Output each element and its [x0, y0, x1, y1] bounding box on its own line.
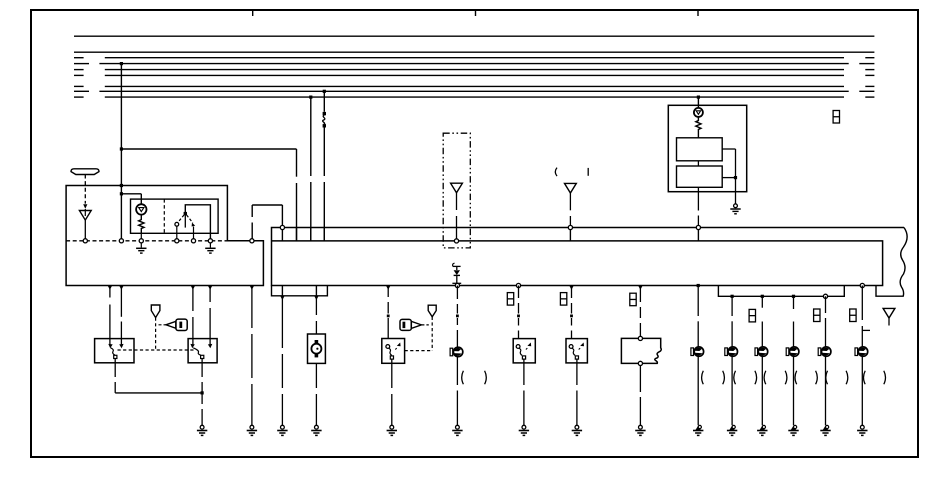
node exit E8 — [697, 284, 700, 287]
pin wire P1 — [280, 225, 284, 241]
pin terminal A1 — [454, 239, 458, 243]
ground G3 — [277, 425, 287, 435]
ground G8 — [572, 425, 582, 435]
connector CB5 — [814, 309, 820, 322]
inner box lamp+switch — [131, 199, 219, 233]
connector CT — [833, 111, 839, 124]
motor M1 — [311, 340, 321, 357]
lamp B6 — [855, 347, 868, 356]
wire B3 — [761, 296, 763, 347]
wire bus line 2 — [74, 51, 874, 53]
switch contact a — [175, 222, 179, 238]
terminal T6 — [208, 239, 212, 243]
wire B4 — [793, 296, 795, 347]
SE squiggle — [572, 348, 575, 355]
wire bus line 5 — [74, 69, 874, 71]
ground G-b4 — [788, 425, 798, 435]
SD squiggle — [519, 348, 522, 355]
wire W7 — [251, 286, 253, 426]
wire bus line 3 — [74, 57, 874, 59]
wire indicator feed — [697, 97, 699, 108]
node exit E6 — [569, 286, 574, 290]
node junction J3 — [120, 184, 123, 187]
wire DL1 — [109, 286, 111, 345]
node exit E1 — [280, 296, 285, 300]
node exit E15 — [119, 286, 124, 290]
wire K1-K2 — [697, 161, 699, 166]
connector CE — [560, 293, 566, 306]
wire H2 — [252, 204, 282, 206]
pin wire P4 — [323, 228, 325, 241]
antenna A2 brackets — [555, 168, 588, 177]
lamp B3 — [755, 347, 768, 356]
node junction J9 — [201, 391, 204, 394]
node junction J4 — [120, 192, 123, 195]
left unit box — [66, 186, 263, 286]
switch box SB — [188, 339, 217, 363]
node exit E3 — [386, 286, 391, 290]
lamp B4 — [786, 347, 799, 356]
node exit E5 — [516, 283, 520, 287]
SB contact arrows — [190, 344, 212, 348]
wire bus line 4 — [74, 63, 874, 65]
key cylinder pentagon KP1 — [151, 305, 160, 318]
frame tick 1 — [252, 11, 254, 16]
connector CD — [507, 293, 513, 306]
indicator lamp L2 — [694, 108, 703, 117]
terminal T7 — [250, 239, 254, 243]
bracket pair BR2 — [734, 371, 757, 385]
lamp B1 — [691, 347, 704, 356]
siren SIR — [450, 347, 463, 356]
mech link dashed 2 — [405, 350, 433, 352]
bracket pair BR5 — [826, 371, 848, 385]
wire SE out — [576, 359, 578, 425]
terminal row dashed — [66, 240, 227, 242]
tick B6 — [862, 329, 870, 331]
key symbol K2 — [400, 319, 421, 330]
ECU band outline — [272, 228, 905, 286]
wire bus line 6 — [74, 74, 874, 76]
connector CB3 — [749, 309, 755, 322]
wire indicator out — [697, 187, 699, 225]
wire W12 — [517, 286, 520, 339]
key switch U-box — [185, 205, 210, 239]
terminal T5 — [191, 239, 195, 243]
node exit E13 — [860, 283, 864, 287]
pin protrusion box — [718, 286, 844, 297]
node exit E2 — [314, 296, 319, 300]
node exit E4 — [455, 283, 459, 287]
motor box — [308, 334, 326, 363]
SE arrow — [579, 343, 584, 350]
lamp B2 — [725, 347, 738, 356]
wire K1 right branch — [722, 149, 735, 204]
wire DL2 — [120, 286, 122, 345]
wire siren out — [456, 357, 458, 426]
torn box terminals — [638, 336, 642, 365]
wire bus line 8 — [74, 90, 874, 92]
node junction J2 — [120, 147, 123, 150]
antenna A3 — [883, 308, 895, 325]
key symbol K1 — [166, 319, 187, 330]
wire W3 vertical — [310, 97, 312, 241]
indicator lamp L1 — [136, 204, 146, 214]
ground G-b2 — [727, 425, 737, 435]
SB squiggle — [193, 348, 201, 355]
wire W13 — [570, 286, 573, 339]
relay block K1 — [677, 138, 723, 161]
wire W9 — [315, 296, 317, 334]
switch box SA — [95, 339, 134, 363]
wire W10 — [387, 286, 390, 339]
ground G2 — [247, 425, 257, 435]
ground G9 — [635, 425, 645, 435]
switch box SC — [382, 339, 405, 364]
SC squiggle — [389, 348, 392, 355]
frame tick 2 — [475, 11, 477, 16]
pin bracket boxes — [272, 286, 328, 296]
key link dash K2a — [421, 324, 428, 326]
SD arrow — [526, 343, 531, 350]
wire motor out — [315, 363, 317, 425]
wire W4 upper — [323, 91, 325, 112]
resistor R1 — [139, 215, 144, 239]
pin wire P3 — [310, 228, 312, 241]
wire W5 — [251, 205, 253, 239]
switch throw dashes — [178, 215, 193, 223]
ECU torn edge — [876, 228, 907, 297]
wire W8 — [281, 296, 283, 426]
wire bus line 1 — [74, 35, 874, 37]
pin terminal ind — [696, 225, 700, 241]
terminal T1 — [83, 239, 87, 243]
wire branch to lamp — [121, 194, 141, 204]
frame tick 3 — [697, 11, 699, 16]
inner dashed divider — [163, 199, 165, 233]
node exit E17 — [208, 286, 213, 290]
SB moving contact — [201, 355, 204, 358]
wire bus line 7 — [74, 85, 874, 87]
SC contact — [386, 345, 390, 349]
bracket pair BR4 — [795, 371, 817, 385]
wire DL3 — [192, 286, 194, 345]
SA moving contact — [114, 355, 117, 358]
node exit E18 — [250, 286, 255, 290]
wire lamp B4 out — [793, 357, 795, 426]
key link dash K1a — [159, 324, 166, 326]
ground G-switch — [205, 243, 215, 253]
SD moving contact — [522, 356, 525, 359]
ground G-indicator — [730, 204, 740, 214]
ground G4 — [311, 425, 321, 435]
bracket pair BR1 — [702, 371, 725, 385]
bracket pair BR0 — [462, 371, 487, 385]
shield arrow — [83, 204, 87, 209]
switch box SE — [566, 339, 587, 363]
ground G-lamp — [136, 243, 146, 253]
wire bus line 9 — [74, 96, 874, 98]
connector CB6 — [850, 309, 856, 322]
wire lamp B6 out — [861, 357, 863, 426]
SC arrow — [395, 343, 400, 350]
key link dashed KV1 — [155, 318, 157, 350]
node bus junction J1 — [120, 62, 123, 65]
node exit E12 — [823, 294, 827, 298]
terminal T3 — [139, 239, 143, 243]
wire feed W1 vertical — [120, 64, 122, 239]
wire B5 — [825, 296, 827, 347]
wire dashed from horn — [84, 175, 86, 204]
node exit E11 — [792, 295, 795, 298]
wire W11 — [456, 286, 459, 347]
wire lamp B1 out — [697, 357, 699, 426]
wire lamp B3 out — [761, 357, 763, 426]
wire lamp B5 out — [825, 357, 827, 426]
node exit E14 — [108, 286, 113, 290]
wire H3 — [115, 392, 202, 394]
antenna A1 — [451, 183, 463, 239]
wire DL4 — [209, 286, 211, 345]
switch pivot — [184, 212, 187, 228]
wire W2 vertical — [296, 149, 298, 241]
wire W4 lower — [323, 127, 325, 241]
wire SC out — [391, 359, 393, 425]
fusible link FL — [323, 112, 326, 128]
wire SB out — [201, 359, 203, 393]
torn box — [621, 338, 661, 363]
node exit E9 — [731, 295, 734, 298]
wire W14 — [639, 286, 641, 337]
antenna A2 — [565, 183, 577, 225]
wire K2 right branch — [722, 177, 735, 179]
SA contact arrows — [108, 344, 123, 348]
node exit E16 — [191, 286, 196, 290]
wire lamp B2 out — [731, 357, 733, 426]
ground G7 — [519, 425, 529, 435]
wire B6 — [861, 286, 863, 348]
diode D1 — [452, 263, 461, 283]
key link dashed KV2 — [431, 317, 433, 351]
switch box SD — [513, 339, 535, 363]
ground G5 — [387, 425, 397, 435]
resistor R2 — [696, 117, 701, 138]
wire branch H1 — [121, 148, 296, 150]
wire to terminal — [84, 220, 86, 239]
ground G-b1 — [693, 425, 703, 435]
ground G6 — [452, 425, 462, 435]
shield box dashdot — [443, 133, 470, 248]
indicator box — [668, 105, 746, 191]
relay block K2 — [677, 166, 723, 187]
wire W14 out — [639, 366, 641, 426]
node bus junction J5 — [309, 96, 312, 99]
key cylinder pentagon KP2 — [428, 305, 436, 317]
SA squiggle — [111, 348, 115, 355]
wire SA out — [114, 359, 116, 393]
ground G-b3 — [757, 425, 767, 435]
wire to G1 — [201, 393, 203, 425]
ground G1 — [197, 425, 207, 435]
node bus junction J6 — [323, 90, 326, 93]
wire B1 — [697, 286, 699, 348]
ground G-b5 — [820, 425, 830, 435]
node junction J8 — [734, 176, 737, 179]
mech link dashed — [118, 349, 196, 351]
node exit E7 — [638, 286, 643, 290]
node bus junction J7 — [697, 96, 700, 99]
SE moving contact — [575, 356, 578, 359]
switch contact b — [192, 223, 196, 239]
node exit E10 — [761, 295, 764, 298]
lamp B5 — [818, 347, 831, 356]
SC moving contact — [390, 356, 393, 359]
pin wire P2 — [296, 228, 298, 241]
pin terminal A2 — [568, 225, 572, 241]
bracket pair BR3 — [764, 371, 787, 385]
horn disc — [71, 169, 99, 175]
wire SD out — [523, 359, 525, 425]
terminal T2 — [119, 239, 123, 243]
terminal T4 — [175, 239, 179, 243]
wire W6 — [281, 205, 283, 225]
ground G-b6 — [857, 425, 867, 435]
wire B2 — [731, 296, 733, 347]
SD contact — [516, 345, 520, 349]
connector CF — [630, 293, 636, 306]
SE contact — [569, 345, 573, 349]
bracket pair BR6 — [864, 371, 886, 385]
shield triangle — [79, 209, 91, 220]
